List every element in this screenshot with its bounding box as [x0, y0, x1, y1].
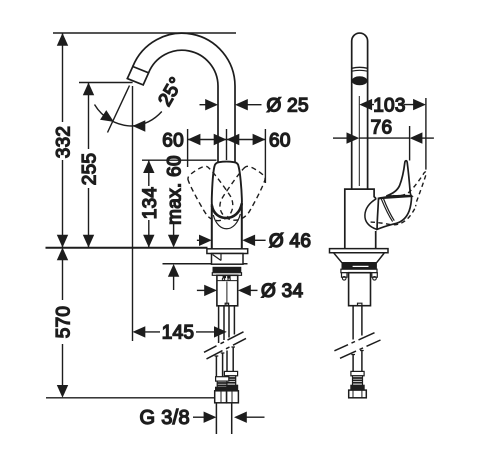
svg-text:60: 60	[269, 130, 291, 151]
handle dashed right position	[215, 163, 270, 227]
handle solid front	[212, 162, 242, 218]
outlet reference line	[79, 82, 133, 84]
side break lines	[334, 333, 374, 351]
g3/8 pipe	[216, 403, 231, 434]
side handle collar	[378, 196, 412, 199]
side skirt trapezoid	[334, 253, 385, 263]
svg-text:G 3/8: G 3/8	[140, 407, 190, 429]
shank front	[217, 275, 238, 306]
dim 134	[140, 160, 161, 247]
dim 60/60	[162, 129, 290, 183]
dim 570	[54, 248, 75, 398]
dim 103	[359, 95, 426, 169]
side nozzle band line 2	[352, 69, 368, 72]
body cap thin arc	[213, 214, 240, 229]
side ledge	[341, 269, 377, 273]
side hex nut	[349, 390, 367, 398]
dim G 3/8	[140, 407, 265, 429]
dim 145	[133, 323, 227, 344]
side shank notch	[358, 303, 362, 306]
side nozzle outlet ellipse	[352, 77, 367, 85]
side handle base	[377, 196, 412, 229]
shank centerline	[226, 282, 228, 306]
side baseplate	[330, 249, 389, 253]
side body seam curve	[365, 199, 377, 230]
outlet vertical extension line	[132, 86, 134, 341]
top reference line	[53, 32, 236, 34]
svg-text:255: 255	[80, 153, 101, 186]
svg-text:Ø 46: Ø 46	[269, 231, 311, 252]
svg-text:max. 60: max. 60	[165, 155, 186, 225]
svg-text:76: 76	[371, 118, 393, 139]
spout outer arc	[133, 33, 235, 163]
side hose upper	[353, 306, 362, 340]
side handle seam lines	[381, 198, 394, 221]
shank bottom notch	[225, 303, 228, 306]
flange box front	[212, 254, 244, 265]
spout nozzle	[127, 67, 148, 85]
side o-ring band	[342, 264, 376, 270]
hex adapters	[215, 391, 227, 403]
side hose lower with cut caps	[353, 351, 362, 372]
dim 76	[333, 118, 434, 161]
dim 25 deg	[95, 74, 188, 133]
side shank	[349, 273, 371, 306]
svg-text:145: 145	[162, 323, 195, 344]
side fitting	[351, 371, 364, 390]
spout inner arc	[149, 50, 218, 163]
retaining ring front	[212, 273, 241, 276]
side body	[345, 189, 376, 249]
svg-text:Ø 25: Ø 25	[267, 96, 309, 117]
break lines front	[204, 332, 244, 353]
svg-text:Ø 34: Ø 34	[261, 281, 304, 302]
flange plate front	[207, 249, 248, 254]
side pipe with cap	[352, 33, 368, 189]
body sides front	[212, 203, 242, 249]
side pipe centerline	[358, 96, 360, 186]
570 bottom reference line	[46, 397, 215, 399]
side handle dashed position	[371, 160, 431, 237]
dim Ø25	[200, 96, 309, 117]
flange box highlight	[213, 254, 222, 261]
side nozzle band line	[352, 67, 368, 68]
hoses front lower with cut caps	[216, 347, 233, 377]
o-ring dark band front	[213, 267, 241, 272]
handle dashed left position	[184, 162, 239, 226]
svg-text:134: 134	[140, 187, 161, 220]
counter underside line	[163, 263, 248, 265]
svg-text:60: 60	[162, 130, 184, 151]
svg-text:570: 570	[54, 306, 75, 339]
dim max. 60	[165, 155, 186, 290]
side mounting feet	[342, 273, 348, 278]
svg-text:332: 332	[54, 126, 75, 159]
handle-top reference line (134)	[142, 159, 217, 161]
side handle lever solid	[386, 161, 411, 196]
shank screws detail	[223, 276, 226, 278]
fitting left front	[216, 377, 229, 391]
svg-text:103: 103	[373, 95, 406, 116]
dim 332	[54, 33, 75, 248]
mounting plane line	[46, 247, 208, 249]
dim Ø34	[197, 281, 304, 302]
handle bottom skirt arc	[212, 204, 242, 219]
dim Ø46	[197, 231, 311, 252]
hoses front upper	[219, 306, 235, 343]
dim 255	[80, 83, 101, 248]
fitting right front	[224, 371, 237, 390]
